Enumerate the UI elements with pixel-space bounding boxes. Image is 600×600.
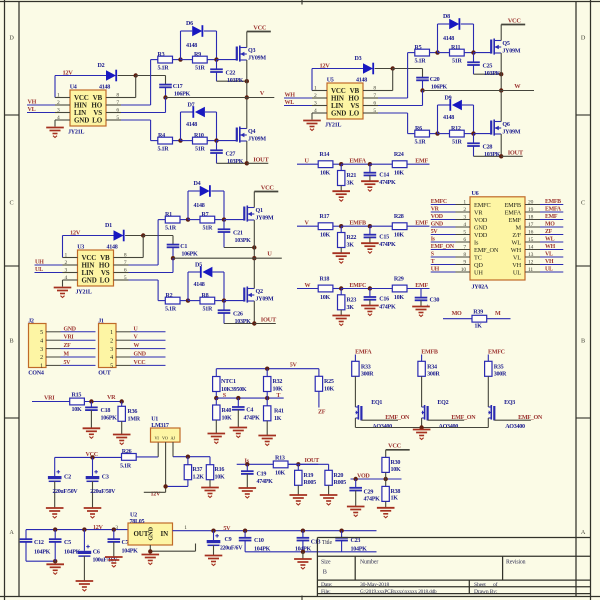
wire Q6 source to IOUT <box>500 134 502 156</box>
connector J2 CON4 <box>29 324 47 368</box>
wire gate top network <box>173 59 181 61</box>
svg-text:D9: D9 <box>445 95 452 101</box>
wire net T to U6 pin 9 <box>431 264 456 266</box>
ground below R36 <box>121 421 123 434</box>
svg-text:JY02A: JY02A <box>472 285 489 291</box>
svg-text:4: 4 <box>65 275 68 281</box>
resistor R18 10K <box>318 285 333 292</box>
resistor R11 51R <box>450 49 465 56</box>
svg-text:IOUT: IOUT <box>305 458 320 464</box>
node gate-a junction <box>178 57 182 61</box>
node C6 top <box>82 527 86 531</box>
ground below R23 <box>340 310 342 315</box>
resistor R22 3K <box>340 226 342 232</box>
svg-text:VRI: VRI <box>64 335 75 341</box>
wire gate to Q5 <box>474 52 492 54</box>
svg-text:4: 4 <box>57 115 60 121</box>
svg-text:M: M <box>64 352 70 358</box>
capacitor C21 103PK <box>223 220 225 230</box>
ground below R41 <box>266 421 268 435</box>
svg-text:474PK: 474PK <box>379 305 396 311</box>
node ground rail junction <box>301 550 305 554</box>
svg-text:JY21L: JY21L <box>76 289 92 295</box>
node gate-b junction <box>222 217 226 221</box>
svg-text:10K: 10K <box>394 233 404 239</box>
svg-text:R5: R5 <box>415 45 422 51</box>
svg-text:10K: 10K <box>275 470 285 476</box>
svg-text:R20: R20 <box>334 473 344 479</box>
wire J1 GND <box>131 356 166 358</box>
svg-text:10K: 10K <box>215 475 225 481</box>
wire net S to U6 pin 8 <box>431 256 456 258</box>
resistor R36 1MR <box>121 402 123 407</box>
resistor R17 10K <box>318 223 333 230</box>
resistor R38 1K <box>385 479 387 486</box>
wire diode loop D9 <box>437 105 439 134</box>
svg-text:5.1R: 5.1R <box>415 58 427 64</box>
node gate-c junction <box>178 138 182 142</box>
wire VB node down to pin 8 <box>135 76 137 98</box>
wire to divider node <box>333 225 341 227</box>
node R30/R38 tap <box>384 477 388 481</box>
svg-text:ZF: ZF <box>545 229 553 235</box>
svg-text:R8: R8 <box>202 293 209 299</box>
power flag VCC at Q3 <box>247 31 271 33</box>
node C29 tap <box>354 477 358 481</box>
wire EQ common source rail <box>355 427 488 429</box>
svg-text:4148: 4148 <box>186 122 197 128</box>
capacitor C15 474PK <box>369 226 371 235</box>
wire D1 cathode to VB node <box>125 235 143 237</box>
svg-text:2: 2 <box>463 207 466 213</box>
svg-text:V: V <box>260 90 265 97</box>
power flag VCC at Q1 <box>254 191 278 193</box>
svg-text:of: of <box>493 581 498 588</box>
svg-text:VRI: VRI <box>44 396 55 402</box>
wire D2 cathode to VB node <box>118 75 136 77</box>
svg-text:103PK: 103PK <box>484 71 501 77</box>
svg-text:C: C <box>581 200 585 207</box>
svg-text:VH: VH <box>512 262 521 269</box>
resistor R33 300R <box>352 361 359 376</box>
wire 12V output stub <box>144 491 166 493</box>
wire EQ1 gate EMF_ON <box>361 419 398 421</box>
wire EQ2 source to rail <box>421 418 423 428</box>
svg-text:C17: C17 <box>173 84 183 90</box>
svg-text:8: 8 <box>373 85 376 91</box>
wire net Is to U6 pin 6 <box>431 241 456 243</box>
svg-text:7: 7 <box>373 93 376 99</box>
wire WL to LIN <box>284 105 312 107</box>
wire gate to Q2 <box>224 300 244 302</box>
ground EQ rail <box>413 429 431 431</box>
svg-text:5: 5 <box>40 330 43 336</box>
IC U5 pin stubs and numbers <box>312 90 327 92</box>
svg-text:EQ2: EQ2 <box>437 400 448 406</box>
svg-text:R005: R005 <box>304 480 317 486</box>
diode D9 4148 <box>449 99 451 111</box>
capacitor C4 474PK <box>237 398 239 407</box>
node R37 tap <box>186 455 190 459</box>
svg-text:OUT: OUT <box>98 371 111 377</box>
capacitor C30 <box>420 289 422 298</box>
node gate-d junction <box>222 298 226 302</box>
node C10 top <box>243 529 247 533</box>
svg-text:2: 2 <box>57 100 60 106</box>
svg-text:R6: R6 <box>415 126 422 132</box>
IC U4 pin stubs and numbers <box>55 97 70 99</box>
node EMFA cap junction <box>368 162 372 166</box>
svg-text:4: 4 <box>40 338 43 344</box>
svg-text:R17: R17 <box>320 214 330 220</box>
svg-text:R10: R10 <box>194 133 204 139</box>
node EMFB cap junction <box>368 224 372 228</box>
svg-text:T: T <box>276 393 280 399</box>
wire net EMF_ON to U6 pin 7 <box>431 249 456 251</box>
node gate-b junction <box>471 50 475 54</box>
node 12V output junction <box>163 484 167 488</box>
resistor R16 10K <box>209 457 211 465</box>
node C13 top <box>301 529 305 533</box>
connector J1 OUT <box>99 324 117 368</box>
svg-text:C19: C19 <box>257 471 267 477</box>
resistor R3 5.1R <box>158 56 173 63</box>
resistor R8 51R <box>200 297 215 304</box>
svg-text:EMF_ON: EMF_ON <box>474 247 499 254</box>
wire gate to Q6 <box>474 133 492 135</box>
wire net ZF from U6 pin 16 <box>540 234 563 236</box>
svg-text:10K: 10K <box>273 386 283 392</box>
svg-text:D: D <box>581 35 586 42</box>
svg-text:103PK: 103PK <box>235 238 252 244</box>
svg-text:5.1R: 5.1R <box>120 464 132 470</box>
svg-text:C28: C28 <box>483 145 493 151</box>
svg-text:1.2K: 1.2K <box>193 475 205 481</box>
svg-text:Q1: Q1 <box>256 208 263 214</box>
svg-text:4: 4 <box>110 355 113 361</box>
svg-text:WL: WL <box>545 237 555 243</box>
svg-text:D8: D8 <box>443 14 450 20</box>
wire HO to gate resistor R3 <box>121 104 151 106</box>
svg-text:13: 13 <box>528 252 534 258</box>
svg-text:File:: File: <box>321 589 331 595</box>
svg-text:UL: UL <box>513 269 521 276</box>
svg-text:10K: 10K <box>394 295 404 301</box>
svg-text:IOUT: IOUT <box>508 149 524 156</box>
svg-text:M: M <box>495 311 501 317</box>
svg-text:B: B <box>323 569 327 576</box>
resistor R9 51R <box>193 56 208 63</box>
capacitor C14 474PK <box>369 164 371 173</box>
node gate-d junction <box>471 131 475 135</box>
svg-text:R30: R30 <box>391 460 401 466</box>
svg-text:C30: C30 <box>430 298 440 304</box>
svg-text:5.1R: 5.1R <box>158 65 170 71</box>
svg-text:1K: 1K <box>391 496 399 502</box>
svg-text:3: 3 <box>57 107 60 113</box>
capacitor C13 104PK <box>302 531 304 538</box>
svg-text:C23: C23 <box>351 538 361 544</box>
wire Q3 source to output <box>246 60 248 98</box>
node R19 tap <box>296 462 300 466</box>
svg-text:J1: J1 <box>98 318 104 324</box>
svg-text:R41: R41 <box>274 408 284 414</box>
node EMFA divider junction <box>339 162 343 166</box>
ground at U5 pin 4 <box>311 113 313 120</box>
svg-text:5: 5 <box>463 229 466 235</box>
svg-text:JY09M: JY09M <box>256 297 274 303</box>
svg-text:EMF_ON: EMF_ON <box>451 415 476 421</box>
wire net WH from U6 pin 14 <box>540 249 563 251</box>
svg-text:17: 17 <box>528 222 534 228</box>
diode D6 4148 <box>192 26 202 36</box>
svg-text:3: 3 <box>40 347 43 353</box>
svg-text:R29: R29 <box>394 276 404 282</box>
svg-text:4148: 4148 <box>107 245 118 251</box>
wire UL to LIN <box>35 272 63 274</box>
svg-text:6: 6 <box>373 100 376 106</box>
wire V input <box>297 225 318 227</box>
wire J2 GND <box>61 331 96 333</box>
svg-text:JY21L: JY21L <box>68 129 84 135</box>
svg-text:WH: WH <box>511 247 522 254</box>
svg-text:C6: C6 <box>93 550 100 556</box>
svg-text:4148: 4148 <box>356 78 367 84</box>
wire HO to gate resistor R5 <box>378 97 408 99</box>
wire J1 U <box>131 331 166 333</box>
svg-text:D1: D1 <box>105 223 112 229</box>
ground below C16 <box>361 305 379 307</box>
svg-text:Number: Number <box>360 559 378 565</box>
wire EMF output <box>407 288 430 290</box>
node V cap junction <box>163 95 167 99</box>
wire net WL from U6 pin 15 <box>540 241 563 243</box>
node C4 tap <box>236 396 240 400</box>
svg-text:C: C <box>10 200 14 207</box>
node R36 tap <box>120 399 124 403</box>
capacitor C2 220uF/50V <box>54 457 56 476</box>
resistor R6 5.1R <box>415 130 430 137</box>
svg-text:R39: R39 <box>473 309 483 315</box>
wire Q3 drain to VCC <box>246 32 248 48</box>
wire output V line <box>166 97 247 99</box>
svg-text:Z/F: Z/F <box>512 232 521 239</box>
svg-text:Title: Title <box>322 540 333 546</box>
svg-text:GND: GND <box>74 117 89 125</box>
wire U1 adj pin <box>172 442 174 457</box>
svg-text:106PK: 106PK <box>174 91 191 97</box>
wire diode loop D5 <box>187 272 189 301</box>
wire LO to R4 <box>121 119 151 121</box>
svg-text:C29: C29 <box>364 489 374 495</box>
node C3 tap <box>90 455 94 459</box>
wire divider to filter cap <box>341 163 370 165</box>
svg-text:106PK: 106PK <box>431 84 448 90</box>
wire W line extension <box>502 90 534 92</box>
ground below C2 <box>46 507 64 509</box>
svg-text:GND: GND <box>82 277 97 285</box>
svg-text:AJ: AJ <box>171 436 176 441</box>
svg-text:R1: R1 <box>165 212 172 218</box>
wire net UL from U6 pin 11 <box>540 271 563 273</box>
svg-text:4148: 4148 <box>443 115 454 121</box>
ground at U3 pin 4 <box>62 280 64 287</box>
svg-text:WL: WL <box>512 239 522 246</box>
svg-text:R33: R33 <box>361 364 371 370</box>
svg-text:6: 6 <box>124 267 127 273</box>
svg-text:3: 3 <box>65 267 68 273</box>
wire net 5V to U6 pin 5 <box>431 234 456 236</box>
wire 12V rail U3 <box>63 235 114 237</box>
svg-text:C21: C21 <box>233 231 243 237</box>
wire Q6 drain to output node <box>500 91 502 122</box>
wire to R29 <box>370 288 392 290</box>
svg-text:JY09M: JY09M <box>248 137 266 143</box>
resistor R30 10K <box>385 450 387 458</box>
svg-text:5: 5 <box>124 275 127 281</box>
svg-text:D4: D4 <box>194 181 201 187</box>
wire 12V rail U4 <box>55 75 106 77</box>
capacitor C27 103PK <box>216 141 218 151</box>
svg-text:U4: U4 <box>70 85 77 91</box>
svg-text:JY21L: JY21L <box>325 122 341 128</box>
wire VL to LIN <box>27 112 55 114</box>
svg-text:474PK: 474PK <box>379 242 396 248</box>
ground below R16 <box>209 480 211 487</box>
svg-text:C3: C3 <box>102 475 109 481</box>
diode D7 4148 <box>192 106 194 118</box>
svg-text:EMF: EMF <box>545 214 558 220</box>
node EQ rail ground junction <box>419 425 423 429</box>
wire NTC1 to S node <box>215 392 217 399</box>
wire Q5 drain to VCC <box>500 25 502 41</box>
wire diode loop D8 <box>437 24 439 53</box>
svg-text:GND: GND <box>64 326 76 332</box>
svg-text:EMFB: EMFB <box>504 202 521 209</box>
svg-text:VCC: VCC <box>134 360 146 366</box>
svg-text:LO: LO <box>100 277 111 285</box>
svg-text:JY09M: JY09M <box>502 49 520 55</box>
svg-text:5.1R: 5.1R <box>158 147 170 153</box>
node C5 bottom junction <box>53 559 57 563</box>
svg-text:U1: U1 <box>151 417 158 423</box>
wire D3 cathode to VB node <box>375 68 393 70</box>
capacitor C16 474PK <box>369 289 371 298</box>
svg-text:AO3400: AO3400 <box>505 424 525 430</box>
svg-text:104PK: 104PK <box>34 549 51 555</box>
capacitor C23 104PK <box>341 531 343 538</box>
wire adj row <box>173 456 210 458</box>
wire net EMFB from U6 pin 20 <box>540 204 563 206</box>
wire VB node to bootstrap cap <box>136 75 166 77</box>
svg-text:12: 12 <box>528 259 534 265</box>
svg-text:4148: 4148 <box>99 85 110 91</box>
node R32 tap <box>265 367 269 371</box>
svg-text:IOUT: IOUT <box>253 156 269 163</box>
node gate-d junction <box>214 138 218 142</box>
svg-text:UL: UL <box>545 267 553 273</box>
svg-text:300R: 300R <box>427 372 440 378</box>
ground below C5 <box>46 563 64 565</box>
node C23 top <box>339 529 343 533</box>
ground at U4 pin 4 <box>54 120 56 127</box>
diode D8 4148 <box>449 19 459 29</box>
wire VH to HIN <box>27 104 55 106</box>
svg-text:4148: 4148 <box>443 36 454 42</box>
svg-text:103PK: 103PK <box>235 319 252 325</box>
transistor Q6 JY09M <box>490 121 492 135</box>
svg-text:VCC: VCC <box>253 24 267 31</box>
wire gate to Q4 <box>217 140 237 142</box>
svg-text:1: 1 <box>110 330 113 336</box>
svg-text:4: 4 <box>314 108 317 114</box>
svg-text:R28: R28 <box>394 214 404 220</box>
svg-text:220uF/50V: 220uF/50V <box>53 489 79 495</box>
svg-text:MO: MO <box>452 311 462 317</box>
svg-text:R37: R37 <box>193 467 203 473</box>
svg-text:VR: VR <box>474 209 483 216</box>
svg-text:C10: C10 <box>254 538 264 544</box>
wire VS pin to output node <box>378 105 423 107</box>
wire IOUT stub <box>501 155 523 157</box>
svg-text:5: 5 <box>373 108 376 114</box>
svg-text:JY09M: JY09M <box>256 216 274 222</box>
wire gate to Q1 <box>224 219 244 221</box>
svg-text:R22: R22 <box>347 235 357 241</box>
svg-text:D6: D6 <box>186 21 193 27</box>
transistor EQ2 AO3400 <box>427 406 429 420</box>
capacitor C25 103PK <box>473 53 475 63</box>
svg-text:EMFC: EMFC <box>488 349 505 355</box>
svg-text:10K: 10K <box>324 387 334 393</box>
svg-text:3: 3 <box>115 525 118 531</box>
wire cap ground rail <box>245 551 376 553</box>
resistor R35 300R <box>485 361 492 376</box>
wire R35 to EQ3 drain <box>487 376 489 407</box>
wire 5V bottom rail <box>173 530 377 532</box>
wire net UH to U6 pin 10 <box>431 271 456 273</box>
wire EMF output <box>407 225 430 227</box>
wire J1 V <box>131 339 166 341</box>
wire VS pin to output node <box>129 272 174 274</box>
wire J2 VRI <box>61 339 96 341</box>
capacitor C20 106PK <box>416 77 429 79</box>
svg-text:EMF_ON: EMF_ON <box>518 415 543 421</box>
svg-text:R32: R32 <box>273 379 283 385</box>
svg-text:7: 7 <box>124 260 127 266</box>
svg-text:Q4: Q4 <box>248 129 255 135</box>
svg-text:220uF/6V: 220uF/6V <box>220 546 243 552</box>
node C9 top <box>211 529 215 533</box>
svg-text:R18: R18 <box>320 276 330 282</box>
svg-text:EMF: EMF <box>509 217 522 224</box>
svg-text:2: 2 <box>65 260 68 266</box>
svg-text:Sheet: Sheet <box>474 582 486 588</box>
svg-text:A: A <box>9 529 14 536</box>
svg-text:R7: R7 <box>202 212 209 218</box>
svg-text:R38: R38 <box>391 489 401 495</box>
resistor R2 5.1R <box>165 297 180 304</box>
capacitor C29 474PK <box>355 479 357 488</box>
svg-text:106PK: 106PK <box>181 251 198 257</box>
svg-text:3: 3 <box>110 347 113 353</box>
svg-text:VL: VL <box>513 254 521 261</box>
svg-text:B: B <box>581 338 585 345</box>
svg-text:R34: R34 <box>427 364 437 370</box>
resistor R14 10K <box>318 161 333 168</box>
svg-text:C14: C14 <box>379 172 389 178</box>
wire VB node down to pin 8 <box>392 69 394 91</box>
